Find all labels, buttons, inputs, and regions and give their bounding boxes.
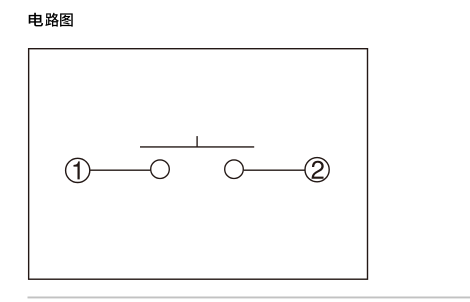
title text: 电路图 (Circuit Diagram): [29, 13, 73, 27]
terminal 1 (pin 1 circled label): [66, 158, 90, 182]
left fixed contact (open circle): [151, 160, 170, 179]
wire: terminal 1 to left fixed contact: [90, 169, 150, 171]
bottom separator rule: [28, 297, 470, 299]
wire: right fixed contact to terminal 2: [244, 169, 305, 171]
movable contact bar with actuator stem (pushbutton switch): [140, 136, 254, 147]
right fixed contact (open circle): [225, 160, 244, 179]
terminal 2 (pin 2 circled label): [305, 158, 329, 182]
